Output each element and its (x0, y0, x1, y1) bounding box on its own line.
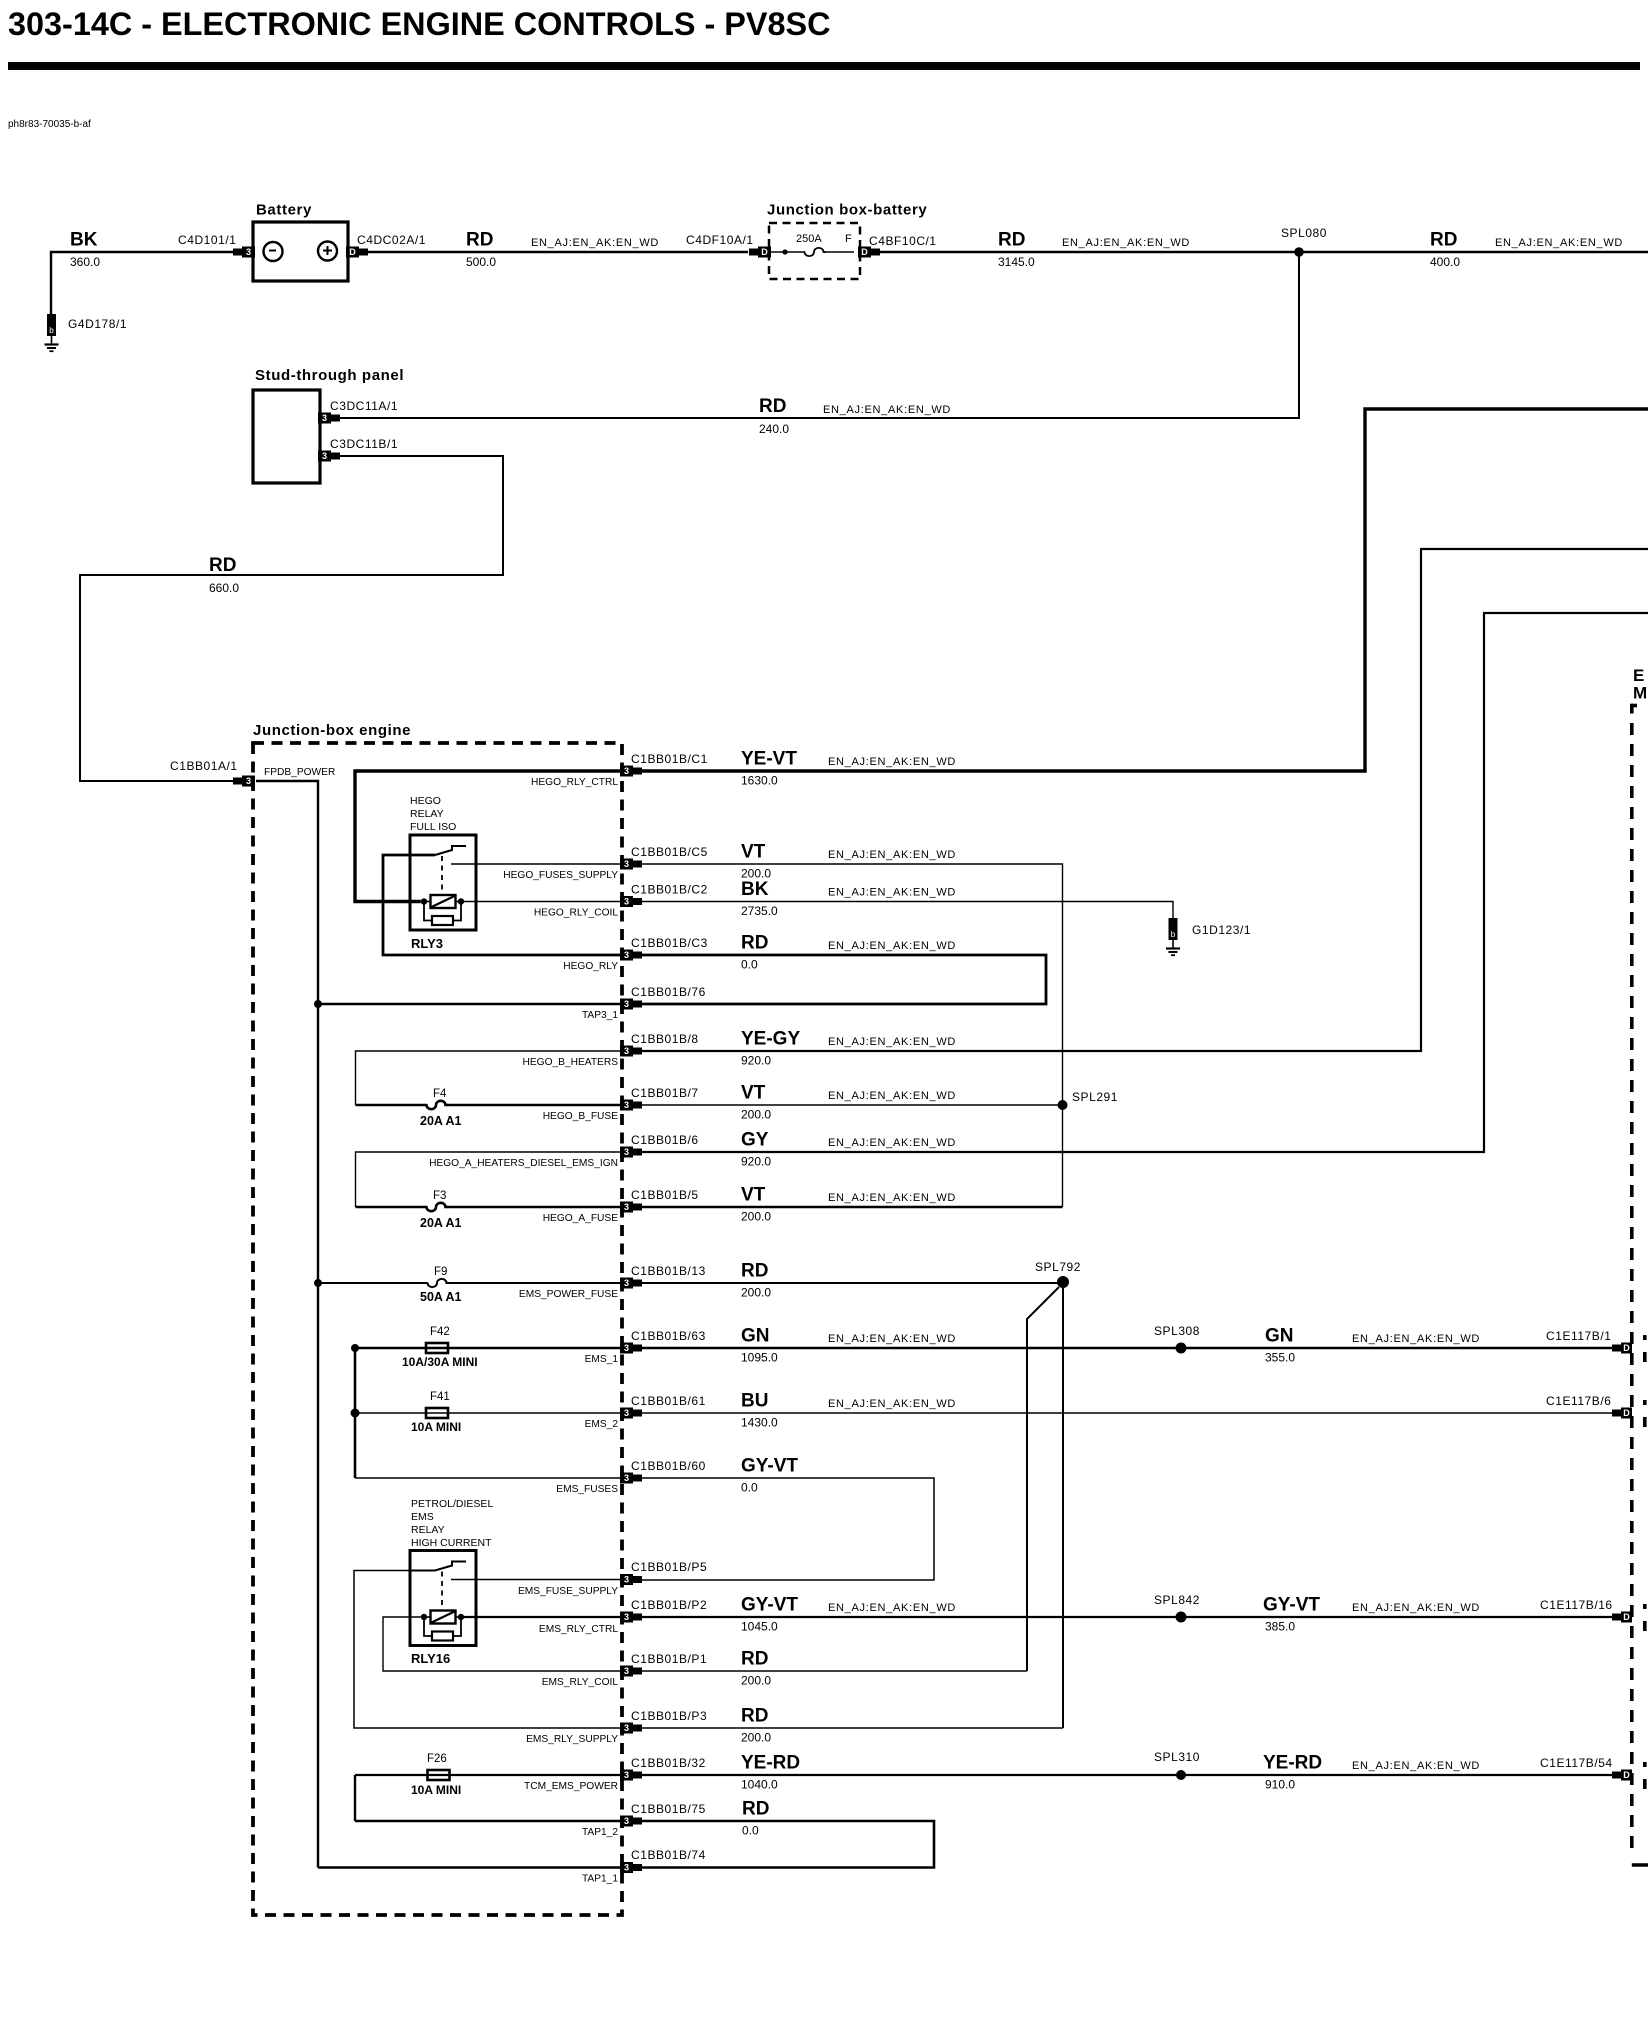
svg-text:3: 3 (624, 1473, 629, 1483)
svg-text:EN_AJ:EN_AK:EN_WD: EN_AJ:EN_AK:EN_WD (828, 1036, 956, 1048)
svg-text:303-14C - ELECTRONIC ENGINE CO: 303-14C - ELECTRONIC ENGINE CONTROLS - P… (8, 6, 831, 42)
svg-text:10A MINI: 10A MINI (411, 1420, 461, 1434)
svg-text:10A/30A MINI: 10A/30A MINI (402, 1355, 478, 1369)
svg-text:RD: RD (209, 555, 236, 576)
pin number mark C1E117B/1 (1643, 1335, 1647, 1340)
wire HEGO_RLY_CTRL internal (355, 771, 620, 902)
svg-text:C1BB01B/7: C1BB01B/7 (631, 1086, 699, 1100)
wire EMS_1 internal (355, 1347, 620, 1350)
svg-text:EN_AJ:EN_AK:EN_WD: EN_AJ:EN_AK:EN_WD (828, 849, 956, 861)
connector pin C1BB01B/P3 (620, 1723, 642, 1734)
connector pin C1BB01B/8 (620, 1046, 642, 1057)
connector pin C3DC11A/1 (318, 413, 340, 424)
svg-text:EN_AJ:EN_AK:EN_WD: EN_AJ:EN_AK:EN_WD (1062, 237, 1190, 249)
svg-text:EN_AJ:EN_AK:EN_WD: EN_AJ:EN_AK:EN_WD (1495, 237, 1623, 249)
svg-text:HEGO_B_HEATERS: HEGO_B_HEATERS (523, 1057, 619, 1068)
connector pin C1BB01A/1 (233, 776, 255, 787)
node fuse bus top (351, 1344, 359, 1352)
wire BK external to ground (642, 902, 1173, 919)
fusible link 250A (805, 248, 826, 256)
connector pin C1E117B/1 (1612, 1343, 1632, 1354)
svg-text:b: b (49, 326, 54, 335)
svg-text:360.0: 360.0 (70, 255, 100, 269)
wire EMS_2 internal (355, 1412, 620, 1414)
svg-text:3: 3 (246, 247, 251, 257)
battery positive terminal (318, 242, 337, 261)
wire TCM_EMS_POWER internal (355, 1774, 620, 1776)
svg-text:EMS_FUSE_SUPPLY: EMS_FUSE_SUPPLY (518, 1586, 618, 1597)
svg-text:F42: F42 (430, 1326, 450, 1338)
header rule (8, 62, 1640, 70)
svg-text:3: 3 (624, 1147, 629, 1157)
svg-text:D: D (1623, 1770, 1630, 1780)
svg-text:RLY3: RLY3 (411, 936, 443, 951)
svg-text:3: 3 (624, 859, 629, 869)
svg-text:660.0: 660.0 (209, 581, 239, 595)
svg-text:EMS: EMS (411, 1511, 434, 1523)
svg-text:RELAY: RELAY (411, 1524, 445, 1536)
svg-text:EMS_1: EMS_1 (585, 1354, 619, 1365)
connector pin C1BB01B/74 (620, 1862, 642, 1873)
node jb-battery splice (782, 249, 787, 254)
wire F26 riser (354, 1775, 356, 1821)
svg-text:EMS_RLY_CTRL: EMS_RLY_CTRL (539, 1624, 618, 1635)
svg-text:GN: GN (1265, 1326, 1294, 1347)
svg-text:ph8r83-70035-b-af: ph8r83-70035-b-af (8, 119, 91, 130)
node SPL842 (1176, 1612, 1187, 1623)
svg-text:HEGO_RLY_CTRL: HEGO_RLY_CTRL (531, 777, 618, 788)
svg-text:BU: BU (741, 1391, 768, 1412)
wire BK battery negative (51, 252, 234, 314)
svg-text:HEGO_A_FUSE: HEGO_A_FUSE (543, 1213, 619, 1224)
svg-text:3: 3 (624, 1723, 629, 1733)
svg-text:200.0: 200.0 (741, 1731, 771, 1745)
wire RD external loop to TAP3_1 (642, 955, 1046, 1004)
svg-text:200.0: 200.0 (741, 1286, 771, 1300)
svg-text:F26: F26 (427, 1753, 447, 1765)
wire internal jb-battery (771, 251, 805, 253)
wire TAP3_1 internal (318, 1003, 620, 1005)
wire internal jb-battery right (824, 251, 854, 253)
svg-text:EN_AJ:EN_AK:EN_WD: EN_AJ:EN_AK:EN_WD (828, 1192, 956, 1204)
wire HEGO_RLY internal (383, 855, 620, 955)
svg-text:200.0: 200.0 (741, 1108, 771, 1122)
svg-text:20A A1: 20A A1 (420, 1114, 462, 1128)
wire FPDB bus (256, 781, 318, 1868)
wire GN external (642, 1347, 1613, 1350)
svg-text:SPL291: SPL291 (1072, 1090, 1118, 1104)
connector pin C1BB01B/C1 (620, 766, 642, 777)
svg-text:3: 3 (624, 1408, 629, 1418)
fuse F42 (426, 1343, 448, 1353)
svg-text:D: D (861, 247, 868, 257)
wire HEGO_B_HEATERS internal (356, 1051, 621, 1105)
svg-text:RD: RD (741, 933, 768, 954)
battery box (253, 222, 348, 281)
svg-text:D: D (1623, 1612, 1630, 1622)
svg-text:HEGO_B_FUSE: HEGO_B_FUSE (543, 1111, 619, 1122)
svg-text:SPL080: SPL080 (1281, 226, 1327, 240)
svg-text:HEGO_FUSES_SUPPLY: HEGO_FUSES_SUPPLY (503, 870, 618, 881)
svg-text:C1BB01B/75: C1BB01B/75 (631, 1802, 706, 1816)
svg-text:GN: GN (741, 1326, 770, 1347)
svg-text:C1BB01B/C2: C1BB01B/C2 (631, 883, 708, 897)
connector pin C1BB01B/75 (620, 1816, 642, 1827)
node SPL792 (1057, 1276, 1069, 1288)
svg-text:3: 3 (322, 413, 327, 423)
wire EMS_POWER_FUSE internal (318, 1282, 428, 1284)
wire EMS_RLY_SUPPLY internal (354, 1571, 620, 1729)
svg-text:C1E117B/6: C1E117B/6 (1546, 1394, 1611, 1408)
connector pin C4D101/1 (233, 247, 255, 258)
svg-text:VT: VT (741, 1083, 766, 1104)
fuse F41 (426, 1408, 448, 1418)
fuse F26 (428, 1770, 450, 1780)
fuse F4 (427, 1101, 448, 1109)
connector pin C1BB01B/32 (620, 1770, 642, 1781)
svg-text:YE-VT: YE-VT (741, 749, 797, 770)
wire BU external (642, 1412, 1613, 1414)
connector pin C1BB01B/C5 (620, 859, 642, 870)
svg-text:3: 3 (322, 451, 327, 461)
svg-text:C4D101/1: C4D101/1 (178, 233, 236, 247)
svg-text:10A MINI: 10A MINI (411, 1783, 461, 1797)
svg-text:3: 3 (624, 1612, 629, 1622)
svg-text:EN_AJ:EN_AK:EN_WD: EN_AJ:EN_AK:EN_WD (828, 1090, 956, 1102)
svg-text:EN_AJ:EN_AK:EN_WD: EN_AJ:EN_AK:EN_WD (1352, 1760, 1480, 1772)
svg-text:BK: BK (741, 879, 769, 900)
svg-text:HEGO_RLY: HEGO_RLY (563, 961, 618, 972)
connector pin C3DC11B/1 (318, 451, 340, 462)
svg-text:G4D178/1: G4D178/1 (68, 317, 127, 331)
svg-text:200.0: 200.0 (741, 1674, 771, 1688)
svg-text:F4: F4 (433, 1088, 447, 1100)
svg-text:3: 3 (624, 1046, 629, 1056)
wire RD external to SPL792 (642, 1282, 1063, 1284)
svg-text:Stud-through panel: Stud-through panel (255, 367, 404, 384)
svg-text:500.0: 500.0 (466, 255, 496, 269)
junction box-battery dashed box (769, 223, 860, 279)
wire TAP1_1 internal (318, 1866, 620, 1869)
battery negative terminal (264, 242, 283, 261)
svg-text:C1BB01B/8: C1BB01B/8 (631, 1032, 699, 1046)
svg-text:0.0: 0.0 (741, 958, 758, 972)
svg-text:50A A1: 50A A1 (420, 1290, 462, 1304)
node SPL308 (1176, 1343, 1187, 1354)
connector pin C4DC02A/1 (346, 247, 368, 258)
connector pin C1E117B/54 (1612, 1770, 1632, 1781)
svg-text:SPL842: SPL842 (1154, 1593, 1200, 1607)
wire EMS_RLY_COIL internal (383, 1617, 620, 1671)
svg-text:C1BB01B/P5: C1BB01B/P5 (631, 1560, 707, 1574)
svg-text:RELAY: RELAY (410, 808, 444, 820)
svg-text:RD: RD (1430, 230, 1457, 251)
wire HEGO_A_HEATERS internal (356, 1152, 621, 1207)
connector pin C1BB01B/P2 (620, 1612, 642, 1623)
svg-text:HEGO: HEGO (410, 795, 441, 807)
svg-text:RD: RD (741, 1649, 768, 1670)
ground G4D178/1 (45, 314, 59, 351)
fuse bus vertical (354, 1348, 357, 1478)
wire RD 240 from panel to SPL080 drop (339, 252, 1299, 418)
svg-text:2735.0: 2735.0 (741, 904, 778, 918)
svg-text:C1BB01B/5: C1BB01B/5 (631, 1188, 699, 1202)
wire SPL792 branch diagonal (1027, 1287, 1059, 1671)
svg-text:385.0: 385.0 (1265, 1620, 1295, 1634)
svg-text:C4DC02A/1: C4DC02A/1 (357, 233, 426, 247)
wire RD external loop TAP1 (642, 1821, 934, 1868)
svg-text:C1BB01A/1: C1BB01A/1 (170, 759, 238, 773)
relay RLY3 (410, 835, 476, 930)
wire RD external to SPL792 riser (642, 1727, 1063, 1729)
svg-text:SPL310: SPL310 (1154, 1750, 1200, 1764)
ground G1D123/1 (1166, 918, 1180, 955)
node bus tap3 (314, 1000, 322, 1008)
svg-text:EMS_POWER_FUSE: EMS_POWER_FUSE (519, 1289, 618, 1300)
svg-text:C1BB01B/32: C1BB01B/32 (631, 1756, 706, 1770)
svg-text:Junction-box engine: Junction-box engine (253, 722, 411, 739)
svg-text:HEGO_RLY_COIL: HEGO_RLY_COIL (534, 908, 619, 919)
connector pin C1BB01B/P5 (620, 1574, 642, 1585)
svg-text:F9: F9 (434, 1266, 447, 1278)
svg-text:RD: RD (742, 1799, 769, 1820)
svg-text:C4DF10A/1: C4DF10A/1 (686, 233, 754, 247)
svg-text:VT: VT (741, 1185, 766, 1206)
svg-text:EN_AJ:EN_AK:EN_WD: EN_AJ:EN_AK:EN_WD (823, 404, 951, 416)
svg-text:C3DC11B/1: C3DC11B/1 (330, 437, 398, 451)
wire EMS_FUSES internal (355, 1477, 620, 1479)
svg-text:TCM_EMS_POWER: TCM_EMS_POWER (524, 1781, 618, 1792)
connector pin C1E117B/16 (1612, 1612, 1632, 1623)
svg-text:3: 3 (624, 897, 629, 907)
wire HEGO_B_FUSE internal (356, 1104, 427, 1106)
svg-text:F: F (845, 233, 852, 245)
wire TAP1_2 internal (355, 1820, 620, 1823)
svg-text:C1BB01B/61: C1BB01B/61 (631, 1394, 706, 1408)
wire GY-VT external to module (642, 1616, 1613, 1618)
svg-text:EMS_FUSES: EMS_FUSES (556, 1484, 618, 1495)
wire HEGO_RLY_COIL internal (461, 901, 620, 903)
svg-text:920.0: 920.0 (741, 1054, 771, 1068)
svg-text:400.0: 400.0 (1430, 255, 1460, 269)
svg-text:EN_AJ:EN_AK:EN_WD: EN_AJ:EN_AK:EN_WD (828, 940, 956, 952)
svg-text:EN_AJ:EN_AK:EN_WD: EN_AJ:EN_AK:EN_WD (828, 1602, 956, 1614)
wire YE-GY external (642, 549, 1648, 1051)
svg-text:240.0: 240.0 (759, 422, 789, 436)
svg-text:D: D (761, 247, 768, 257)
connector pin C1BB01B/63 (620, 1343, 642, 1354)
svg-text:20A A1: 20A A1 (420, 1216, 462, 1230)
svg-text:SPL792: SPL792 (1035, 1260, 1081, 1274)
connector pin C1BB01B/7 (620, 1100, 642, 1111)
svg-text:3: 3 (624, 1343, 629, 1353)
svg-text:EN_AJ:EN_AK:EN_WD: EN_AJ:EN_AK:EN_WD (828, 1137, 956, 1149)
svg-text:250A: 250A (796, 233, 822, 245)
connector pin C1BB01B/5 (620, 1202, 642, 1213)
wire EMS_FUSE_SUPPLY internal (451, 1579, 620, 1581)
wire SPL792 branch vertical (1062, 1288, 1064, 1728)
connector pin C1BB01B/76 (620, 999, 642, 1010)
svg-text:FULL ISO: FULL ISO (410, 821, 456, 833)
svg-text:C1BB01B/C3: C1BB01B/C3 (631, 936, 708, 950)
pin number mark C1E117B/54 (1643, 1762, 1647, 1767)
svg-text:3: 3 (624, 1202, 629, 1212)
node bus tap f9 (314, 1279, 322, 1287)
svg-text:C1BB01B/74: C1BB01B/74 (631, 1848, 706, 1862)
svg-text:C1BB01B/76: C1BB01B/76 (631, 985, 706, 999)
svg-text:D: D (1623, 1343, 1630, 1353)
wire EMS_RLY_CTRL internal (461, 1616, 620, 1618)
svg-text:C1E117B/54: C1E117B/54 (1540, 1756, 1613, 1770)
connector pin C1E117B/6 (1612, 1408, 1632, 1419)
svg-text:EN_AJ:EN_AK:EN_WD: EN_AJ:EN_AK:EN_WD (1352, 1333, 1480, 1345)
svg-text:RD: RD (741, 1706, 768, 1727)
fuse F3 (427, 1203, 448, 1211)
svg-text:RD: RD (998, 230, 1025, 251)
svg-text:BK: BK (70, 230, 98, 251)
wire HEGO_FUSES_SUPPLY internal (451, 863, 620, 865)
connector pin C4BF10C/1 (858, 247, 880, 258)
svg-text:C3DC11A/1: C3DC11A/1 (330, 399, 398, 413)
svg-text:0.0: 0.0 (741, 1481, 758, 1495)
pin number mark C1E117B/6 (1643, 1400, 1647, 1405)
connector pin C1BB01B/61 (620, 1408, 642, 1419)
wire RD external to SPL792 diag riser (642, 1670, 1027, 1672)
svg-text:1045.0: 1045.0 (741, 1620, 778, 1634)
svg-text:920.0: 920.0 (741, 1155, 771, 1169)
svg-text:F41: F41 (430, 1391, 450, 1403)
svg-text:GY-VT: GY-VT (741, 1595, 798, 1616)
wire RD 660 panel to junction-box engine (80, 456, 503, 781)
svg-text:GY-VT: GY-VT (1263, 1595, 1320, 1616)
svg-text:VT: VT (741, 842, 766, 863)
svg-text:C4BF10C/1: C4BF10C/1 (869, 234, 937, 248)
svg-text:3: 3 (624, 1770, 629, 1780)
svg-text:GY-VT: GY-VT (741, 1456, 798, 1477)
wire RD battery to junction box (367, 251, 748, 253)
svg-text:YE-RD: YE-RD (1263, 1753, 1322, 1774)
wire GY-VT external loop to P5 (642, 1478, 934, 1580)
svg-text:TAP1_1: TAP1_1 (582, 1874, 618, 1885)
svg-text:F3: F3 (433, 1190, 446, 1202)
wire YE-VT external (642, 409, 1648, 771)
svg-text:3: 3 (624, 999, 629, 1009)
node SPL291 (1058, 1100, 1068, 1110)
svg-text:C1BB01B/6: C1BB01B/6 (631, 1133, 699, 1147)
svg-text:3: 3 (624, 1666, 629, 1676)
svg-text:RD: RD (466, 230, 493, 251)
connector pin C1BB01B/6 (620, 1147, 642, 1158)
svg-text:GY: GY (741, 1130, 769, 1151)
fuse F9 (428, 1279, 449, 1287)
svg-text:910.0: 910.0 (1265, 1778, 1295, 1792)
svg-text:C1BB01B/C5: C1BB01B/C5 (631, 845, 708, 859)
svg-text:PETROL/DIESEL: PETROL/DIESEL (411, 1498, 493, 1510)
connector pin C1BB01B/C2 (620, 896, 642, 907)
wire VT external to SPL291 riser (642, 864, 1063, 1207)
svg-text:EN_AJ:EN_AK:EN_WD: EN_AJ:EN_AK:EN_WD (1352, 1602, 1480, 1614)
svg-text:3: 3 (624, 1816, 629, 1826)
svg-text:3: 3 (624, 1575, 629, 1585)
svg-text:1630.0: 1630.0 (741, 774, 778, 788)
svg-text:C1BB01B/P2: C1BB01B/P2 (631, 1598, 707, 1612)
svg-text:0.0: 0.0 (742, 1824, 759, 1838)
relay RLY16 (410, 1551, 476, 1646)
svg-text:EMS_RLY_SUPPLY: EMS_RLY_SUPPLY (526, 1734, 618, 1745)
svg-text:E: E (1633, 666, 1644, 685)
junction-box engine dashed box (253, 743, 622, 1915)
svg-text:Junction box-battery: Junction box-battery (767, 202, 927, 219)
svg-text:3: 3 (624, 1100, 629, 1110)
svg-text:3: 3 (624, 766, 629, 776)
svg-text:YE-RD: YE-RD (741, 1753, 800, 1774)
svg-text:C1BB01B/13: C1BB01B/13 (631, 1264, 706, 1278)
wire VT external row 5 (642, 1206, 1063, 1208)
node SPL310 (1176, 1770, 1186, 1780)
connector pin C4DF10A/1 (749, 247, 771, 258)
svg-text:RD: RD (759, 396, 786, 417)
svg-text:G1D123/1: G1D123/1 (1192, 923, 1251, 937)
svg-text:TAP1_2: TAP1_2 (582, 1827, 618, 1838)
wire RD junction box to SPL080 and beyond (880, 251, 1648, 253)
svg-text:RLY16: RLY16 (411, 1651, 450, 1666)
svg-text:EN_AJ:EN_AK:EN_WD: EN_AJ:EN_AK:EN_WD (531, 237, 659, 249)
svg-text:1095.0: 1095.0 (741, 1351, 778, 1365)
svg-text:3: 3 (624, 1278, 629, 1288)
wire HEGO_A_FUSE internal (356, 1206, 427, 1208)
svg-text:EN_AJ:EN_AK:EN_WD: EN_AJ:EN_AK:EN_WD (828, 1333, 956, 1345)
svg-text:3: 3 (246, 776, 251, 786)
svg-text:C1BB01B/60: C1BB01B/60 (631, 1459, 706, 1473)
wire GY external (642, 613, 1648, 1152)
svg-text:EN_AJ:EN_AK:EN_WD: EN_AJ:EN_AK:EN_WD (828, 887, 956, 899)
svg-text:3145.0: 3145.0 (998, 255, 1035, 269)
svg-text:1430.0: 1430.0 (741, 1416, 778, 1430)
node SPL080 (1294, 247, 1304, 257)
svg-text:HIGH CURRENT: HIGH CURRENT (411, 1537, 492, 1549)
svg-text:C1BB01B/C1: C1BB01B/C1 (631, 752, 708, 766)
connector pin C1BB01B/60 (620, 1473, 642, 1484)
svg-text:3: 3 (624, 950, 629, 960)
svg-text:EN_AJ:EN_AK:EN_WD: EN_AJ:EN_AK:EN_WD (828, 756, 956, 768)
svg-text:C1E117B/1: C1E117B/1 (1546, 1329, 1611, 1343)
stud-through panel box (253, 390, 320, 483)
svg-text:SPL308: SPL308 (1154, 1324, 1200, 1338)
svg-text:C1BB01B/P1: C1BB01B/P1 (631, 1652, 707, 1666)
svg-text:b: b (1171, 930, 1176, 939)
svg-text:C1BB01B/P3: C1BB01B/P3 (631, 1709, 707, 1723)
connector pin C1BB01B/13 (620, 1278, 642, 1289)
connector pin C1BB01B/C3 (620, 950, 642, 961)
svg-text:FPDB_POWER: FPDB_POWER (264, 767, 335, 778)
svg-text:YE-GY: YE-GY (741, 1029, 800, 1050)
pin number mark C1E117B/16 (1643, 1604, 1647, 1609)
svg-text:EMS_RLY_COIL: EMS_RLY_COIL (542, 1677, 619, 1688)
svg-text:EN_AJ:EN_AK:EN_WD: EN_AJ:EN_AK:EN_WD (828, 1398, 956, 1410)
svg-text:EMS_2: EMS_2 (585, 1419, 619, 1430)
svg-text:HEGO_A_HEATERS_DIESEL_EMS_IGN: HEGO_A_HEATERS_DIESEL_EMS_IGN (429, 1158, 618, 1169)
svg-text:C1BB01B/63: C1BB01B/63 (631, 1329, 706, 1343)
svg-text:TAP3_1: TAP3_1 (582, 1010, 618, 1021)
svg-text:Battery: Battery (256, 202, 312, 219)
svg-text:D: D (349, 247, 356, 257)
wire VT external to SPL291 (642, 1104, 1063, 1106)
node fuse bus mid (351, 1409, 360, 1418)
svg-text:D: D (1623, 1408, 1630, 1418)
EMS module dashed border (1632, 704, 1637, 708)
svg-text:200.0: 200.0 (741, 1210, 771, 1224)
svg-text:M: M (1633, 684, 1647, 703)
